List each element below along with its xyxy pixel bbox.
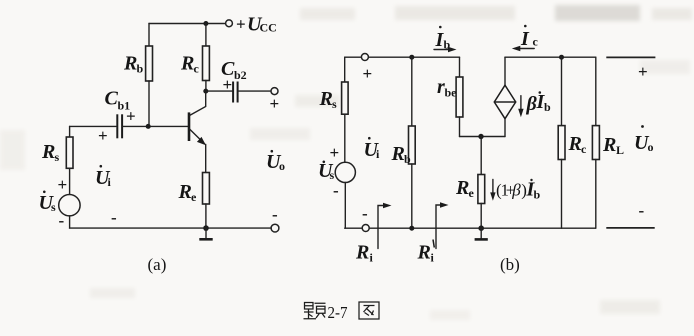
node: Rb top junction (b) [409,55,414,60]
wire: left branch (a) [69,126,71,137]
wire: bottom rail (b) [345,227,596,229]
svg-text:+: + [223,75,233,94]
label + above Us (b) [330,143,340,162]
wire: top rail left segment (b) [345,56,460,58]
svg-text:i: i [108,175,112,189]
current source beta*Ib (diamond) [494,57,515,136]
wire: Cb2 to output terminal [239,90,271,92]
label Ui (b) [364,137,381,161]
resistor Rs (b) [342,82,349,162]
label Rc [180,53,200,76]
svg-text:-: - [272,205,278,224]
label + above Us (a) [58,175,68,194]
arrow of beta*Ib [518,96,523,118]
figure caption: 题 2-7 图 [304,302,380,322]
label Us (a) [39,191,57,215]
svg-text:-: - [362,204,368,223]
resistor RL (b) [592,57,599,228]
wire: input top (a) [70,125,116,127]
label (1+beta)Ib [496,179,541,202]
svg-text:i: i [431,251,435,265]
label - below Us (a) [59,211,65,230]
svg-text:s: s [330,168,335,182]
svg-text:c: c [581,142,587,156]
label Uo (a) [266,150,285,173]
label + at output top (a) [270,94,280,113]
svg-text:(a): (a) [148,255,167,274]
terminal +Ucc open circle [226,20,233,27]
svg-text:s: s [55,150,60,164]
label R'i with arrow [417,202,449,264]
wire: bottom rail (a) [70,227,272,229]
label Ri with arrow [355,203,392,265]
svg-text:R: R [455,177,469,199]
label Uo (b) [634,125,654,154]
caption (b) [500,255,520,274]
svg-text:CC: CC [260,21,277,35]
ground (b) [475,228,488,239]
label beta*Ib [526,91,552,115]
svg-text:(b): (b) [500,255,520,274]
svg-text:c: c [533,35,539,49]
svg-text:+: + [270,94,280,113]
wire: emitter mid wire (b) [460,136,506,138]
hanzi TI (question) [304,303,326,319]
svg-text:R: R [180,53,194,75]
svg-text:-: - [111,208,117,227]
label Rc (b) [568,133,588,156]
svg-text:s: s [51,200,56,214]
wire: top supply rail (a) [149,23,226,25]
svg-text:β: β [511,181,521,200]
node: Re bottom ground junction (b) [478,225,484,231]
svg-text:b2: b2 [234,68,247,82]
svg-text:-: - [639,201,645,220]
ground (a) [199,228,212,239]
svg-text:R: R [568,133,582,155]
label RL (b) [602,134,624,157]
resistor Rc [203,24,210,92]
label Ic current with arrow [512,25,539,52]
terminal: input top (b) [361,54,368,61]
wire: Cb1 to base node [123,125,188,127]
svg-text:R: R [355,242,369,264]
label Re (a) [178,181,198,204]
label Cb1 [105,88,131,113]
svg-text:o: o [648,140,654,154]
node: base node [146,124,151,129]
resistor Re (a) [203,173,210,229]
svg-text:b: b [404,152,411,166]
polarity + of Cb1 [98,126,108,145]
svg-text:c: c [194,62,200,76]
label Rs (b) [319,88,338,111]
terminal: output top (a) [271,88,278,95]
svg-text:+: + [98,126,108,145]
terminal: input bottom (b) [362,225,369,232]
label +Ucc [236,14,277,36]
terminal: output bottom (a) [271,224,279,232]
svg-text:R: R [602,134,616,156]
resistor Re (b) [478,137,485,229]
svg-text:R: R [391,143,405,165]
node: Rb bottom junction (b) [409,226,414,231]
svg-text:R: R [319,88,333,110]
svg-text:b: b [534,188,541,202]
svg-text:+: + [126,107,136,126]
svg-text:e: e [469,186,475,200]
wire: Us to bottom rail (a) [69,216,71,228]
svg-text:i: i [370,251,374,265]
svg-text:b: b [544,100,551,114]
arrow of (1+beta)Ib [490,180,495,201]
wire: output port bottom segment (b) [606,227,654,229]
capacitor Cb2 [233,82,238,103]
wire: left branch (b) [344,57,346,82]
source Us (b) [335,162,355,182]
svg-text:R: R [178,181,192,203]
label Re (b) [455,177,475,200]
wire: top rail right segment (b) [505,56,596,58]
svg-text:L: L [616,143,624,157]
svg-text:C: C [105,88,119,110]
resistor Rb [146,24,153,127]
label Cb2 [221,58,247,82]
svg-text:b: b [137,62,144,76]
svg-text:s: s [332,97,337,111]
svg-text:o: o [279,159,285,173]
label + at output (b) [638,62,648,81]
resistor Rb (b) [409,57,416,228]
source Us (a) [59,195,80,216]
wire: collector node to Cb2 [206,90,232,92]
svg-text:+: + [638,62,648,81]
svg-text:R: R [123,53,137,75]
caption (a) [148,255,167,274]
svg-text:+: + [58,175,68,194]
resistor r_be [456,57,463,136]
node: Rc top junction (b) [559,55,564,60]
svg-text:I: I [520,28,530,50]
label Ui (a) [95,165,112,189]
svg-text:+: + [236,15,246,34]
label - at output (b) [639,201,645,220]
node: collector node [203,89,208,94]
label Rs (a) [41,141,60,164]
svg-text:R: R [41,141,55,163]
node: emitter node (b) [478,134,483,139]
capacitor Cb1 [117,114,122,138]
label Ib current with arrow [434,26,457,53]
label Us (b) [318,160,335,182]
svg-text:+: + [363,64,373,83]
svg-text:i: i [376,147,380,161]
svg-text:-: - [59,211,65,230]
wire: Us to bottom rail (b) [344,183,346,229]
label r_be [437,76,457,100]
label Rb [123,53,144,76]
label - below Us (b) [333,181,339,200]
node: emitter ground junction [203,225,209,231]
node: Rc top junction [203,21,208,26]
svg-text:2-7: 2-7 [328,303,348,322]
svg-text:e: e [191,190,197,204]
label - at output bottom (a) [272,205,278,224]
label - at input bottom (b) [362,204,368,223]
resistor Rc (b) [558,57,565,228]
resistor Rs (a) [66,137,73,195]
transistor Q1 [189,93,206,173]
label + at input top (b) [363,64,373,83]
label Rb (b) [391,143,412,166]
svg-text:R: R [417,242,431,264]
svg-text:be: be [445,86,458,100]
wire: output port top segment (b) [606,56,655,58]
polarity tick of Cb1 right [126,107,136,126]
label - of Ui (a) [111,208,117,227]
svg-text:-: - [333,181,339,200]
polarity + of Cb2 [223,75,233,94]
hanzi TU (figure) [359,302,379,319]
